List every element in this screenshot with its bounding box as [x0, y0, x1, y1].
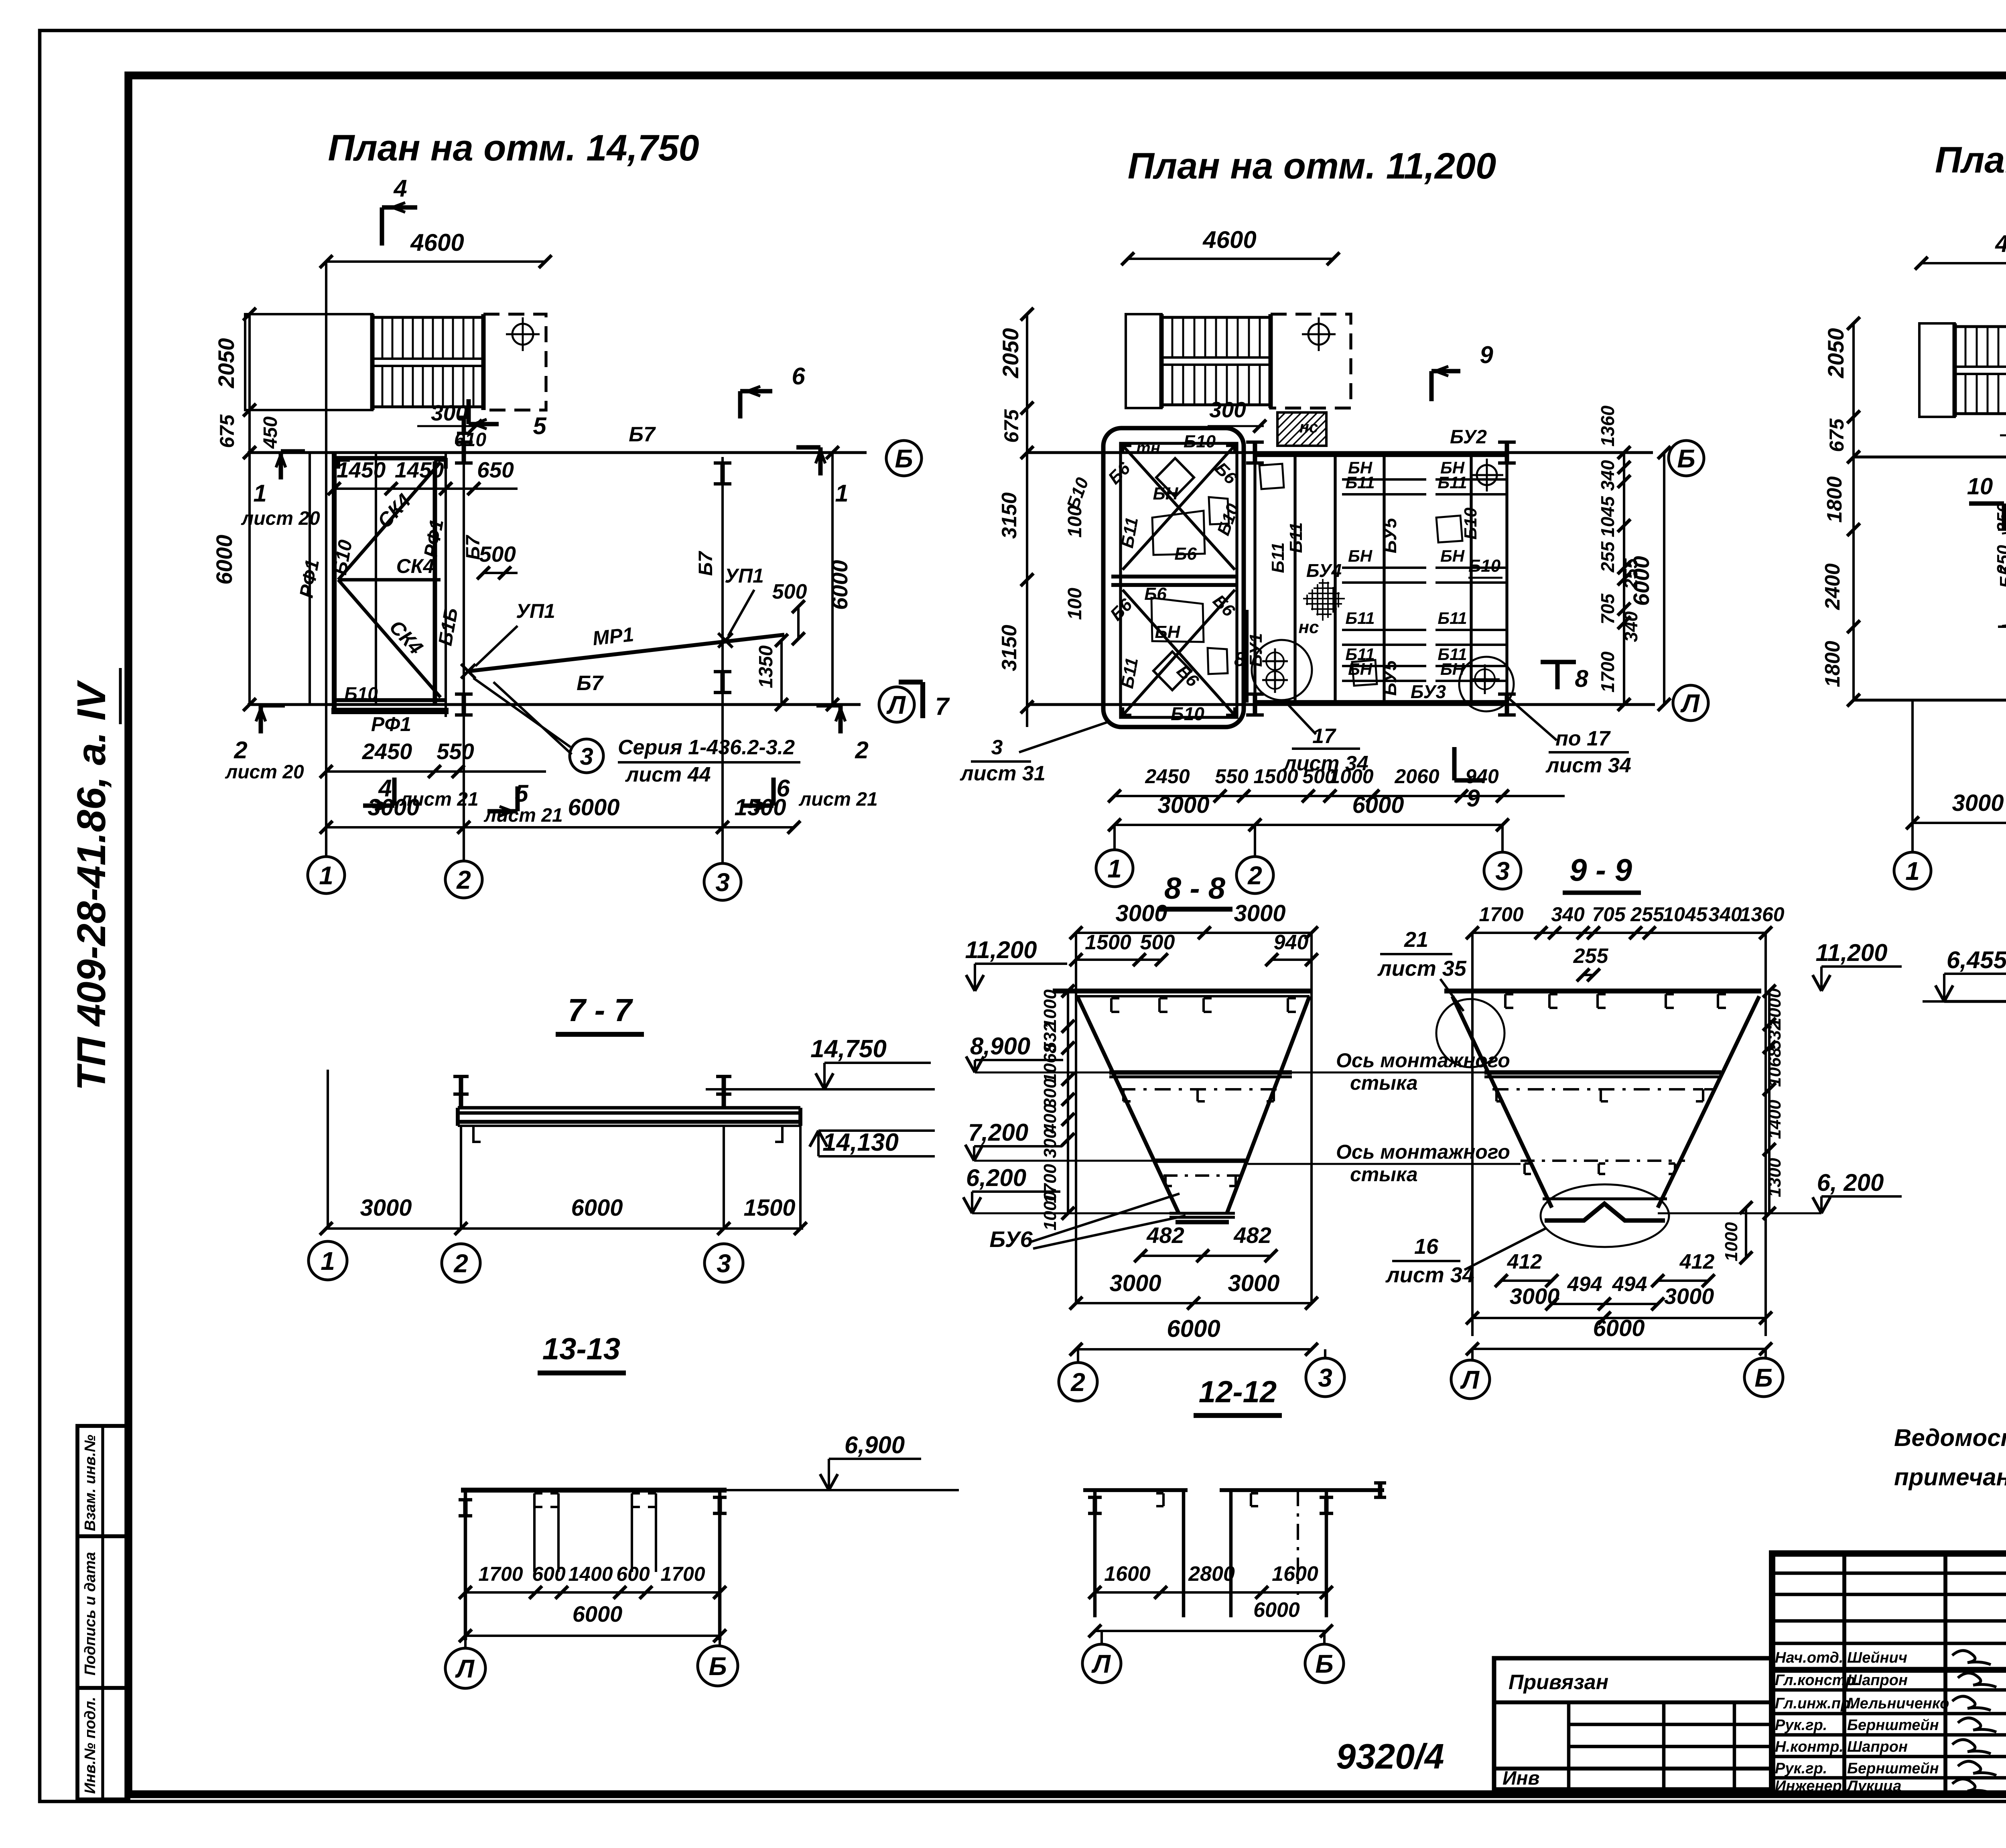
svg-text:3: 3 — [991, 736, 1003, 759]
svg-text:340: 340 — [1708, 903, 1742, 926]
svg-text:6,900: 6,900 — [845, 1432, 905, 1458]
svg-text:9 - 9: 9 - 9 — [1569, 852, 1632, 887]
svg-text:Нач.отд.: Нач.отд. — [1775, 1649, 1843, 1666]
svg-text:План на отм. 14,750: План на отм. 14,750 — [328, 128, 699, 169]
svg-text:Л: Л — [1091, 1649, 1111, 1678]
svg-text:11,200: 11,200 — [965, 936, 1037, 963]
svg-text:500: 500 — [479, 542, 516, 567]
svg-text:7,200: 7,200 — [968, 1119, 1028, 1146]
svg-text:Ось монтажного: Ось монтажного — [1336, 1049, 1510, 1072]
svg-text:БУ3: БУ3 — [1411, 681, 1446, 702]
svg-text:лист 35: лист 35 — [1377, 956, 1467, 981]
svg-text:3000: 3000 — [1157, 792, 1209, 818]
svg-text:300: 300 — [1040, 1129, 1060, 1158]
svg-text:БУ4: БУ4 — [1306, 560, 1342, 581]
svg-text:675: 675 — [1000, 409, 1023, 443]
svg-text:БН: БН — [1153, 484, 1179, 504]
svg-text:2: 2 — [456, 865, 471, 894]
svg-text:БН: БН — [1155, 622, 1181, 642]
svg-text:482: 482 — [1146, 1223, 1184, 1248]
svg-text:13-13: 13-13 — [542, 1332, 620, 1366]
svg-text:3: 3 — [580, 743, 593, 770]
svg-text:3: 3 — [1495, 857, 1510, 885]
svg-text:СК4: СК4 — [396, 555, 434, 577]
svg-text:21: 21 — [1404, 928, 1428, 952]
svg-text:1800: 1800 — [1823, 476, 1846, 523]
svg-text:лист 21: лист 21 — [483, 805, 562, 826]
svg-text:2: 2 — [1247, 861, 1262, 890]
svg-text:по 17: по 17 — [1555, 727, 1611, 750]
svg-text:Ось монтажного: Ось монтажного — [1336, 1141, 1510, 1163]
svg-text:4600: 4600 — [1995, 230, 2006, 257]
svg-text:лист 34: лист 34 — [1385, 1263, 1474, 1287]
svg-text:6000: 6000 — [1593, 1315, 1645, 1341]
svg-text:255: 255 — [1573, 944, 1609, 968]
svg-text:Рук.гр.: Рук.гр. — [1775, 1717, 1827, 1734]
svg-text:Л: Л — [886, 690, 906, 719]
svg-text:Б7: Б7 — [629, 423, 656, 446]
svg-text:3: 3 — [1318, 1363, 1332, 1392]
svg-text:лист 31: лист 31 — [959, 762, 1046, 785]
svg-text:2050: 2050 — [213, 338, 239, 389]
svg-text:705: 705 — [1592, 903, 1626, 926]
svg-text:14,130: 14,130 — [822, 1129, 899, 1156]
svg-text:Лукица: Лукица — [1846, 1778, 1901, 1795]
svg-text:1: 1 — [1107, 854, 1122, 883]
svg-text:Б: Б — [1677, 444, 1695, 473]
svg-text:494: 494 — [1612, 1273, 1647, 1296]
svg-text:6,455: 6,455 — [1947, 946, 2006, 973]
svg-text:1450: 1450 — [395, 457, 444, 482]
svg-text:1360: 1360 — [1740, 903, 1784, 926]
svg-text:1500: 1500 — [734, 794, 786, 820]
svg-text:7 - 7: 7 - 7 — [568, 992, 633, 1028]
svg-text:412: 412 — [1507, 1250, 1542, 1273]
svg-text:БУ6: БУ6 — [989, 1227, 1033, 1252]
svg-text:1000: 1000 — [1040, 1191, 1060, 1231]
svg-text:3150: 3150 — [998, 625, 1021, 671]
svg-text:2: 2 — [453, 1249, 468, 1278]
svg-text:лист 34: лист 34 — [1545, 754, 1631, 777]
svg-text:8 - 8: 8 - 8 — [1164, 871, 1226, 906]
svg-text:УП1: УП1 — [725, 565, 764, 587]
svg-text:6000: 6000 — [1167, 1315, 1220, 1342]
svg-text:БН: БН — [1440, 546, 1465, 565]
svg-text:Б10: Б10 — [1461, 507, 1480, 540]
svg-text:500: 500 — [1140, 931, 1175, 954]
svg-text:БУ5: БУ5 — [1379, 518, 1400, 554]
svg-text:4600: 4600 — [1202, 226, 1256, 253]
svg-text:1450: 1450 — [337, 457, 386, 482]
svg-text:3150: 3150 — [998, 492, 1021, 539]
svg-text:6000: 6000 — [1253, 1598, 1300, 1622]
svg-text:600: 600 — [532, 1563, 566, 1585]
svg-text:2450: 2450 — [362, 739, 412, 764]
svg-text:УП1: УП1 — [516, 600, 555, 622]
svg-text:3000: 3000 — [1664, 1283, 1714, 1309]
svg-text:2: 2 — [855, 737, 868, 764]
svg-text:Б: Б — [895, 444, 913, 473]
svg-text:1: 1 — [321, 1247, 335, 1275]
svg-text:Б11: Б11 — [1286, 522, 1306, 553]
svg-text:250: 250 — [1994, 545, 2006, 575]
svg-text:940: 940 — [1274, 931, 1309, 954]
svg-text:Б: Б — [1754, 1363, 1773, 1392]
svg-text:ТП 409-28-41.86, а. IV: ТП 409-28-41.86, а. IV — [69, 680, 114, 1091]
svg-text:6000: 6000 — [1352, 792, 1404, 818]
svg-text:6000: 6000 — [571, 1195, 623, 1221]
svg-text:Б11: Б11 — [1437, 473, 1467, 492]
svg-text:РФ1: РФ1 — [371, 713, 411, 735]
svg-text:4600: 4600 — [410, 229, 464, 256]
svg-text:Б11: Б11 — [1268, 542, 1288, 573]
svg-text:1600: 1600 — [1104, 1562, 1151, 1586]
svg-text:тн: тн — [1136, 439, 1160, 457]
svg-text:Гл.констр.: Гл.констр. — [1775, 1672, 1859, 1689]
svg-text:Б7: Б7 — [463, 534, 484, 560]
svg-text:9: 9 — [1466, 785, 1480, 812]
svg-text:Б11: Б11 — [1345, 473, 1375, 492]
svg-text:1350: 1350 — [755, 645, 777, 688]
svg-text:675: 675 — [1825, 418, 1848, 452]
svg-text:450: 450 — [260, 416, 281, 449]
svg-text:6,200: 6,200 — [966, 1164, 1026, 1191]
svg-text:705: 705 — [1597, 593, 1618, 624]
svg-text:482: 482 — [1233, 1223, 1271, 1248]
svg-text:1500: 1500 — [1085, 931, 1131, 954]
svg-text:1500: 1500 — [743, 1195, 795, 1221]
svg-text:1360: 1360 — [1597, 405, 1618, 447]
svg-text:300: 300 — [1209, 397, 1246, 422]
svg-text:17: 17 — [1312, 725, 1336, 748]
svg-text:Л: Л — [455, 1654, 475, 1683]
svg-text:8: 8 — [1234, 648, 1245, 670]
svg-text:340: 340 — [1551, 903, 1585, 926]
svg-text:Б6: Б6 — [1174, 544, 1197, 564]
svg-text:2: 2 — [1070, 1368, 1085, 1397]
svg-text:3: 3 — [717, 1249, 731, 1278]
svg-text:МР1: МР1 — [591, 623, 635, 650]
svg-text:2400: 2400 — [1821, 563, 1844, 610]
svg-text:6000: 6000 — [568, 794, 619, 820]
svg-text:1700: 1700 — [1479, 903, 1523, 926]
svg-text:7: 7 — [935, 693, 950, 721]
svg-text:Б: Б — [1315, 1649, 1333, 1678]
svg-text:2450: 2450 — [1145, 765, 1190, 788]
svg-text:1: 1 — [1905, 857, 1920, 885]
svg-text:250: 250 — [1994, 503, 2006, 533]
svg-text:412: 412 — [1679, 1250, 1715, 1273]
svg-text:3000: 3000 — [1234, 900, 1285, 926]
svg-text:3000: 3000 — [360, 1195, 412, 1221]
svg-text:Б: Б — [709, 1652, 727, 1681]
svg-text:Подпись и дата: Подпись и дата — [82, 1552, 99, 1675]
svg-text:Бернштейн: Бернштейн — [1847, 1760, 1939, 1777]
svg-text:Б7: Б7 — [577, 672, 604, 695]
svg-text:Инв.№ подл.: Инв.№ подл. — [82, 1697, 99, 1794]
svg-text:2: 2 — [233, 737, 247, 764]
svg-text:6000: 6000 — [211, 535, 237, 585]
svg-text:Н.контр.: Н.контр. — [1775, 1738, 1844, 1755]
svg-text:1045: 1045 — [1597, 496, 1618, 537]
svg-text:1: 1 — [319, 861, 333, 890]
svg-text:300: 300 — [1040, 1078, 1060, 1108]
svg-text:12-12: 12-12 — [1199, 1375, 1277, 1409]
svg-text:5: 5 — [515, 780, 529, 807]
svg-text:Б10: Б10 — [1171, 703, 1204, 724]
svg-text:Б7: Б7 — [695, 550, 717, 576]
svg-text:14,750: 14,750 — [810, 1035, 887, 1063]
svg-text:9320/4: 9320/4 — [1336, 1736, 1444, 1776]
svg-text:Рук.гр.: Рук.гр. — [1775, 1760, 1827, 1777]
svg-text:1500: 1500 — [1253, 765, 1298, 788]
svg-text:4: 4 — [393, 175, 407, 202]
svg-text:3000: 3000 — [1109, 1270, 1161, 1296]
svg-text:Инв: Инв — [1502, 1768, 1540, 1789]
svg-text:1045: 1045 — [1663, 903, 1708, 926]
svg-text:Л: Л — [1680, 689, 1700, 718]
svg-text:Шапрон: Шапрон — [1847, 1672, 1908, 1689]
svg-text:1700: 1700 — [1597, 651, 1618, 692]
svg-text:10: 10 — [1967, 473, 1993, 500]
svg-text:Шапрон: Шапрон — [1847, 1738, 1908, 1755]
svg-text:1068: 1068 — [1765, 1048, 1785, 1087]
svg-text:340: 340 — [1597, 460, 1618, 491]
svg-text:6000: 6000 — [573, 1601, 623, 1627]
svg-text:1000: 1000 — [1329, 765, 1373, 788]
svg-text:Л: Л — [1460, 1365, 1480, 1394]
svg-text:11,200: 11,200 — [1815, 939, 1887, 966]
svg-text:стыка: стыка — [1350, 1163, 1418, 1186]
svg-text:1800: 1800 — [1821, 641, 1844, 687]
svg-text:План на отм. 11,200: План на отм. 11,200 — [1128, 146, 1496, 187]
svg-text:255: 255 — [1630, 903, 1665, 926]
svg-text:1068: 1068 — [1040, 1044, 1060, 1083]
svg-text:940: 940 — [1465, 765, 1499, 788]
svg-text:5: 5 — [533, 412, 547, 439]
svg-text:2050: 2050 — [1823, 328, 1848, 379]
svg-text:3000: 3000 — [367, 794, 419, 820]
svg-text:примечания на листе 29: примечания на листе 29 — [1894, 1464, 2006, 1491]
svg-text:1300: 1300 — [1765, 1158, 1785, 1197]
svg-text:1700: 1700 — [478, 1563, 523, 1585]
svg-text:6000: 6000 — [827, 560, 852, 610]
svg-text:Привязан: Привязан — [1509, 1671, 1608, 1694]
svg-text:План на отм. 6,900: План на отм. 6,900 — [1935, 140, 2006, 181]
svg-text:500: 500 — [772, 580, 807, 603]
svg-text:3000: 3000 — [1228, 1270, 1279, 1296]
svg-text:Взам. инв.№: Взам. инв.№ — [82, 1435, 99, 1531]
svg-text:16: 16 — [1414, 1235, 1439, 1259]
svg-text:БУ5: БУ5 — [1379, 660, 1400, 696]
svg-text:БУ2: БУ2 — [1450, 426, 1487, 448]
svg-text:494: 494 — [1567, 1273, 1602, 1296]
svg-text:1000: 1000 — [1722, 1222, 1741, 1261]
svg-text:100: 100 — [1064, 506, 1086, 538]
svg-text:Б11: Б11 — [1345, 609, 1375, 628]
svg-text:1600: 1600 — [1272, 1562, 1318, 1586]
svg-text:255: 255 — [1597, 541, 1618, 573]
svg-text:8,900: 8,900 — [970, 1033, 1030, 1060]
svg-text:стыка: стыка — [1350, 1072, 1418, 1094]
svg-text:лист 44: лист 44 — [625, 763, 711, 786]
svg-text:2800: 2800 — [1188, 1562, 1235, 1586]
svg-text:Инженер: Инженер — [1775, 1778, 1842, 1795]
svg-text:лист 20: лист 20 — [241, 508, 320, 529]
svg-text:3000: 3000 — [1510, 1283, 1560, 1309]
svg-text:550: 550 — [437, 739, 474, 764]
svg-text:Серия 1-436.2-3.2: Серия 1-436.2-3.2 — [618, 736, 795, 759]
svg-text:100: 100 — [1064, 588, 1086, 620]
svg-text:Мельниченко: Мельниченко — [1847, 1695, 1949, 1712]
svg-text:Б10: Б10 — [344, 683, 378, 704]
svg-text:Бернштейн: Бернштейн — [1847, 1717, 1939, 1734]
svg-text:340: 340 — [1620, 611, 1641, 642]
svg-text:Б10: Б10 — [1468, 556, 1501, 576]
svg-text:600: 600 — [616, 1563, 650, 1585]
svg-text:Гл.инж.пр.: Гл.инж.пр. — [1775, 1695, 1854, 1712]
svg-text:675: 675 — [216, 414, 238, 448]
svg-text:1: 1 — [835, 480, 848, 507]
svg-text:6: 6 — [792, 363, 805, 390]
svg-text:9: 9 — [1480, 341, 1493, 368]
svg-text:6000: 6000 — [1628, 556, 1654, 606]
svg-text:Б6: Б6 — [1144, 584, 1167, 604]
svg-text:1700: 1700 — [660, 1563, 705, 1585]
svg-text:лист 20: лист 20 — [225, 762, 304, 783]
svg-text:3000: 3000 — [1115, 900, 1167, 926]
svg-text:1400: 1400 — [1765, 1100, 1785, 1139]
svg-text:лист 21: лист 21 — [798, 789, 877, 810]
svg-text:650: 650 — [477, 457, 514, 482]
svg-text:Шейнич: Шейнич — [1847, 1649, 1907, 1666]
svg-text:1: 1 — [253, 480, 266, 507]
svg-text:Б10: Б10 — [1184, 432, 1216, 451]
svg-text:2050: 2050 — [998, 328, 1023, 379]
svg-text:3: 3 — [715, 868, 730, 897]
svg-text:Ведомость элементов и общие: Ведомость элементов и общие — [1894, 1424, 2006, 1451]
svg-text:6, 200: 6, 200 — [1817, 1169, 1884, 1196]
svg-text:3000: 3000 — [1952, 790, 2004, 816]
svg-text:нс: нс — [1298, 617, 1319, 637]
svg-text:2060: 2060 — [1394, 765, 1439, 788]
svg-text:1400: 1400 — [568, 1563, 613, 1585]
svg-text:БН: БН — [1348, 546, 1373, 565]
svg-text:550: 550 — [1215, 765, 1249, 788]
svg-text:нс: нс — [1299, 418, 1318, 436]
svg-text:8: 8 — [1575, 665, 1588, 692]
svg-text:Б11: Б11 — [1437, 609, 1467, 628]
